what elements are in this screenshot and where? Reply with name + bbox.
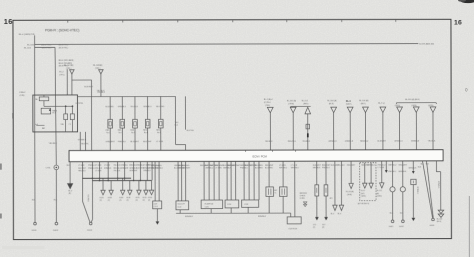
svg-text:ORN/BLU: ORN/BLU	[143, 106, 152, 108]
svg-text:YEL/BLK: YEL/BLK	[302, 141, 310, 143]
svg-text:BL-6: BL-6	[338, 213, 342, 215]
svg-text:BLU/RED: BLU/RED	[265, 168, 273, 170]
svg-text:No.5: No.5	[157, 132, 161, 134]
svg-text:BRN/BLK: BRN/BLK	[416, 187, 418, 195]
svg-text:(YEL): (YEL)	[265, 105, 270, 107]
svg-text:G11: G11	[313, 224, 316, 226]
svg-text:WHT/BLU: WHT/BLU	[388, 165, 397, 167]
svg-text:C121: C121	[154, 206, 158, 208]
svg-text:BL-504: BL-504	[24, 47, 32, 49]
svg-text:PNK/BLU: PNK/BLU	[388, 171, 396, 173]
svg-text:G402: G402	[399, 226, 404, 228]
svg-text:BRN/BLK: BRN/BLK	[437, 181, 439, 189]
svg-text:YEL/BLK: YEL/BLK	[97, 92, 106, 94]
svg-text:YEL/BLK: YEL/BLK	[428, 141, 436, 143]
svg-text:LT GRN: LT GRN	[95, 170, 102, 172]
svg-text:No.4: No.4	[34, 124, 38, 126]
svg-text:GRN/YEL: GRN/YEL	[75, 103, 83, 105]
svg-text:G17: G17	[322, 224, 325, 226]
svg-text:(GRN): (GRN)	[411, 105, 417, 107]
svg-text:BLK/RED: BLK/RED	[87, 195, 89, 203]
svg-text:ORN/BLU: ORN/BLU	[394, 141, 403, 143]
svg-text:(BLU): (BLU)	[437, 221, 442, 223]
svg-text:BL-4 (GRN) P/B: BL-4 (GRN) P/B	[19, 34, 35, 36]
svg-text:BLK/YEL: BLK/YEL	[187, 130, 194, 132]
svg-text:LT GRN: LT GRN	[378, 167, 385, 169]
svg-text:GRN/BLK: GRN/BLK	[345, 141, 354, 143]
svg-text:BL-506 (A): BL-506 (A)	[359, 99, 369, 102]
svg-text:(ORN): (ORN)	[288, 103, 294, 105]
svg-text:PNK/BLU: PNK/BLU	[118, 141, 127, 143]
svg-text:YEL/BLK: YEL/BLK	[337, 165, 345, 167]
svg-text:GRN/BLK: GRN/BLK	[328, 141, 337, 143]
svg-text:ECM / PCM: ECM / PCM	[253, 155, 268, 159]
svg-text:GRN/WHT: GRN/WHT	[182, 168, 191, 170]
svg-text:ECM/PCM: ECM/PCM	[205, 204, 214, 206]
svg-text:BLK/WHT: BLK/WHT	[84, 87, 94, 89]
svg-text:LT GRN: LT GRN	[155, 165, 162, 167]
svg-text:RED/WHT: RED/WHT	[322, 165, 331, 167]
svg-text:(BLK): (BLK)	[361, 103, 366, 105]
svg-text:G102: G102	[87, 230, 93, 232]
svg-text:LT GRN: LT GRN	[104, 165, 111, 167]
svg-text:BAT: BAT	[42, 127, 45, 130]
svg-text:PNK/BLU: PNK/BLU	[155, 168, 163, 170]
svg-text:GRN/BLK: GRN/BLK	[223, 168, 232, 170]
svg-text:YEL/BLK: YEL/BLK	[130, 106, 138, 108]
svg-text:CL: CL	[274, 192, 276, 194]
svg-text:(GRN): (GRN)	[347, 194, 352, 196]
svg-text:BRN/BLK: BRN/BLK	[409, 167, 417, 169]
svg-text:No.4: No.4	[144, 132, 148, 134]
svg-text:BLU/RED: BLU/RED	[255, 165, 263, 167]
svg-text:BL-9 (-): BL-9 (-)	[378, 103, 385, 105]
svg-text:No.3: No.3	[131, 132, 135, 134]
svg-text:C128: C128	[244, 204, 248, 206]
svg-text:LT GRN: LT GRN	[156, 141, 163, 143]
svg-text:BLU/RED: BLU/RED	[156, 106, 165, 108]
svg-text:BL-1 (A)-4: BL-1 (A)-4	[264, 98, 273, 101]
svg-text:C549 ECM: C549 ECM	[288, 228, 297, 230]
svg-text:RED/WHT: RED/WHT	[399, 165, 408, 167]
svg-text:(B): (B)	[69, 193, 72, 195]
svg-text:C125: C125	[205, 206, 209, 208]
svg-text:BRN/BLK: BRN/BLK	[185, 216, 193, 218]
svg-text:(GRN): (GRN)	[428, 105, 434, 107]
svg-text:BL-510(A): BL-510(A)	[346, 190, 354, 193]
svg-text:YEL/BLK: YEL/BLK	[265, 141, 273, 143]
svg-text:CONN: CONN	[300, 198, 306, 200]
svg-text:BLU/RED: BLU/RED	[106, 106, 115, 108]
svg-text:GRN/WHT: GRN/WHT	[106, 141, 116, 143]
svg-text:BRN/BLK: BRN/BLK	[368, 165, 376, 167]
svg-text:G403: G403	[430, 225, 435, 227]
svg-text:BH-4 (W/O ABS): BH-4 (W/O ABS)	[59, 59, 74, 62]
svg-text:BLK/WHT: BLK/WHT	[143, 141, 152, 143]
svg-text:B-STK ABS (W): B-STK ABS (W)	[419, 42, 434, 45]
svg-text:LT GRN: LT GRN	[291, 165, 298, 167]
svg-text:(GRN): (GRN)	[361, 196, 366, 198]
svg-text:BL-51: BL-51	[361, 190, 365, 192]
svg-text:BLU/RED: BLU/RED	[255, 168, 263, 170]
svg-text:PGM-FI : (SOHC-VTEC): PGM-FI : (SOHC-VTEC)	[45, 29, 79, 33]
svg-text:BL-504 (A): BL-504 (A)	[327, 99, 337, 102]
svg-text:G401: G401	[389, 226, 394, 228]
svg-text:(BLK/YEL): (BLK/YEL)	[41, 44, 51, 46]
svg-text:WHT/BLU: WHT/BLU	[291, 168, 300, 170]
svg-text:(RED): (RED)	[303, 103, 309, 105]
svg-text:PNK/BLU: PNK/BLU	[378, 165, 386, 167]
svg-text:RED/WHT: RED/WHT	[265, 165, 274, 167]
svg-text:No.2: No.2	[119, 132, 123, 134]
svg-text:BLK/WHT: BLK/WHT	[378, 141, 387, 143]
svg-text:(C/B): (C/B)	[20, 95, 25, 97]
svg-text:YEL/BLK: YEL/BLK	[49, 143, 58, 145]
svg-text:(GRN): (GRN)	[377, 196, 382, 198]
svg-text:(GRN): (GRN)	[395, 105, 401, 107]
svg-text:(BLK/YEL): (BLK/YEL)	[59, 48, 69, 50]
svg-text:(BLK): (BLK)	[329, 103, 334, 105]
svg-text:BLK/WHT: BLK/WHT	[130, 141, 139, 143]
svg-text:G402: G402	[53, 230, 59, 232]
svg-text:BL-506: BL-506	[27, 44, 35, 46]
svg-text:BRN/BLK: BRN/BLK	[313, 167, 321, 169]
svg-text:(YEL): (YEL)	[59, 74, 64, 76]
svg-text:RED/BLU: RED/BLU	[288, 141, 297, 143]
svg-text:(C) W-4: (C) W-4	[264, 102, 271, 104]
svg-text:16: 16	[4, 17, 13, 26]
svg-text:C122: C122	[177, 207, 181, 209]
svg-text:7.5: 7.5	[68, 124, 70, 126]
svg-text:C126: C126	[227, 204, 231, 206]
svg-text:(): ()	[465, 88, 467, 92]
svg-text:BL-511: BL-511	[377, 190, 382, 192]
svg-text:(WHT): (WHT)	[346, 104, 352, 106]
svg-text:BRN/BLK: BRN/BLK	[399, 171, 407, 173]
svg-text:BLK/WHT: BLK/WHT	[313, 165, 322, 167]
svg-text:C731: C731	[46, 168, 52, 170]
svg-text:BL-508(A): BL-508(A)	[93, 64, 102, 67]
svg-text:(BLK/YEL): (BLK/YEL)	[59, 45, 69, 47]
svg-text:BL-503 (A) (BLU): BL-503 (A) (BLU)	[405, 98, 420, 101]
svg-text:BL-5: BL-5	[346, 101, 352, 103]
svg-text:LT GRN: LT GRN	[78, 165, 85, 167]
svg-text:WHT/BLU: WHT/BLU	[279, 168, 288, 170]
svg-text:RED/WHT: RED/WHT	[347, 165, 356, 167]
svg-text:No.1: No.1	[106, 132, 110, 134]
svg-text:PNK/BLU: PNK/BLU	[322, 167, 330, 169]
svg-text:(BLK/YEL): (BLK/YEL)	[42, 47, 52, 49]
svg-text:LT GRN: LT GRN	[215, 168, 222, 170]
svg-text:BL-4: BL-4	[331, 213, 335, 215]
svg-text:BL-502 (A): BL-502 (A)	[287, 99, 297, 102]
svg-text:BL-512: BL-512	[302, 100, 308, 102]
svg-text:PNK/BLU: PNK/BLU	[240, 168, 248, 170]
svg-text:RED/BLU: RED/BLU	[360, 141, 369, 143]
svg-text:FSB-2: FSB-2	[20, 92, 27, 94]
svg-text:BLK/YEL: BLK/YEL	[81, 143, 89, 145]
svg-text:TDC/CYP: TDC/CYP	[177, 204, 185, 206]
svg-text:(A/T MODELS): (A/T MODELS)	[358, 202, 370, 205]
svg-text:GRN/BLK: GRN/BLK	[411, 141, 420, 143]
svg-text:G101: G101	[32, 230, 38, 232]
svg-text:BLK/WHT: BLK/WHT	[78, 168, 86, 170]
svg-text:LT GRN: LT GRN	[279, 165, 286, 167]
svg-text:BL-507(A): BL-507(A)	[64, 64, 73, 67]
svg-text:ORN/BLU: ORN/BLU	[205, 168, 214, 170]
svg-text:16: 16	[454, 19, 462, 26]
svg-text:GRN/BLK: GRN/BLK	[118, 106, 127, 108]
svg-text:BLU/RED: BLU/RED	[182, 165, 190, 167]
svg-text:BRN/BLK: BRN/BLK	[258, 216, 266, 218]
svg-text:LT GRN: LT GRN	[95, 165, 102, 167]
